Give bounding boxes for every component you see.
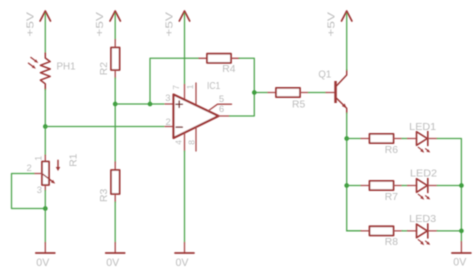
svg-text:R7: R7	[385, 192, 399, 203]
wire rail3 ground	[184, 151, 186, 243]
resistor R4	[199, 54, 239, 75]
node right rail row3	[459, 229, 464, 234]
node emitter row2	[344, 183, 349, 188]
svg-text:4: 4	[173, 140, 183, 145]
svg-text:R8: R8	[385, 237, 399, 248]
svg-text:0V: 0V	[453, 257, 467, 269]
node R1 bottom	[43, 206, 48, 211]
wire rail3 to pin7	[184, 14, 186, 85]
wire rail1 middle	[44, 90, 46, 127]
svg-text:0V: 0V	[36, 257, 50, 269]
ground GND2	[106, 243, 125, 269]
svg-text:R1: R1	[68, 153, 79, 167]
svg-text:R4: R4	[222, 64, 236, 75]
LED1	[408, 122, 438, 153]
ground GND4	[452, 242, 471, 269]
svg-text:1: 1	[33, 156, 43, 161]
resistor R7	[361, 181, 402, 203]
node output	[252, 90, 257, 95]
wire LED2 to right rail	[437, 185, 461, 187]
svg-text:0V: 0V	[176, 257, 190, 269]
svg-text:R6: R6	[385, 145, 399, 156]
svg-text:+5V: +5V	[327, 12, 338, 37]
wire row1 left	[347, 138, 361, 140]
svg-text:1: 1	[185, 84, 195, 89]
wire R8 to LED3	[402, 230, 408, 232]
wire pin3 net	[115, 103, 164, 105]
resistor R8	[361, 226, 402, 248]
supply +5V symbol rail3	[165, 11, 190, 37]
node rail1/pin2	[43, 124, 48, 129]
svg-text:R2: R2	[99, 62, 110, 76]
wire LED1 to right rail	[437, 139, 461, 242]
svg-text:3: 3	[37, 185, 42, 196]
trimmer R1	[27, 153, 80, 196]
supply +5V symbol rail1	[25, 11, 50, 37]
node rail2/pin3	[113, 102, 118, 107]
resistor R3	[99, 162, 120, 202]
transistor Q1	[318, 70, 346, 113]
svg-text:+5V: +5V	[165, 12, 176, 37]
svg-text:IC1: IC1	[207, 81, 221, 92]
svg-text:7: 7	[171, 85, 181, 90]
wire row2	[347, 185, 361, 187]
svg-text:Q1: Q1	[318, 70, 331, 81]
svg-text:8: 8	[186, 140, 196, 145]
node right rail row2	[459, 183, 464, 188]
wire Q1 emitter rail	[347, 113, 361, 231]
wire feedback right	[239, 58, 254, 92]
svg-text:2: 2	[27, 163, 32, 174]
resistor R6	[361, 134, 402, 156]
svg-text:LED2: LED2	[410, 169, 437, 180]
node feedback/pin3	[148, 102, 153, 107]
op-amp IC1	[165, 81, 232, 151]
wire rail2 middle	[114, 78, 116, 162]
svg-text:6: 6	[219, 104, 224, 115]
wire pin2 net	[45, 126, 164, 128]
svg-text:LED3: LED3	[409, 214, 436, 225]
svg-text:2: 2	[166, 117, 171, 128]
svg-text:+5V: +5V	[95, 12, 106, 37]
wire Q1 collector	[346, 14, 348, 71]
svg-text:LED1: LED1	[409, 122, 436, 133]
ground GND3	[175, 243, 194, 269]
wire R6 to LED1	[402, 138, 408, 140]
supply +5V symbol rail2	[95, 11, 120, 37]
wire rail2 bottom	[114, 202, 116, 243]
svg-text:R3: R3	[99, 188, 110, 202]
svg-text:PH1: PH1	[57, 61, 76, 72]
wire rail2 top	[114, 14, 116, 40]
resistor R2	[99, 40, 120, 79]
supply +5V symbol Q1	[327, 11, 352, 37]
svg-text:0V: 0V	[106, 257, 120, 269]
wire R5 to Q1 base	[309, 92, 327, 94]
wire wiper loop	[12, 174, 46, 209]
wire rail1 top	[44, 14, 46, 54]
svg-text:+5V: +5V	[25, 12, 36, 37]
LED3	[408, 214, 438, 245]
wire rail1 to R1	[44, 127, 46, 156]
wire row3	[347, 230, 361, 232]
resistor R5	[268, 88, 309, 110]
wire LED3 to right rail	[437, 230, 461, 232]
wire R7 to LED2	[402, 185, 408, 187]
photoresistor PH1	[28, 53, 76, 90]
node emitter row1	[344, 136, 349, 141]
wire feedback vertical left	[150, 58, 199, 104]
wire output net	[230, 93, 269, 117]
wire rail1 bottom	[44, 191, 46, 243]
LED2	[408, 169, 438, 200]
svg-text:3: 3	[165, 93, 170, 104]
svg-text:R5: R5	[292, 99, 306, 110]
ground GND1	[36, 243, 55, 269]
